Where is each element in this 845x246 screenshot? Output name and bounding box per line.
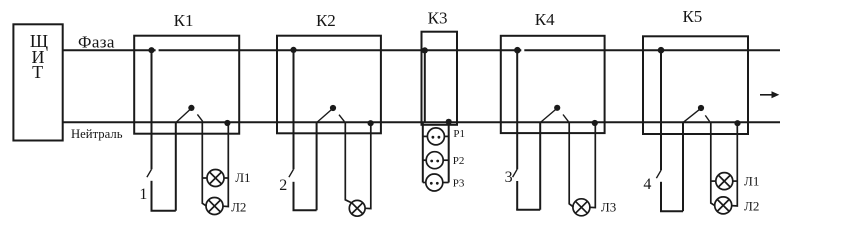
svg-text:Л3: Л3 (601, 199, 616, 214)
socket P3 (426, 174, 443, 191)
wire K5 lamp-feed blade (705, 115, 709, 121)
svg-text:Нейтраль: Нейтраль (71, 127, 123, 141)
wire K3 socket P1 right stub (444, 135, 448, 137)
wire K4 return diagonal (540, 109, 557, 123)
svg-text:К1: К1 (174, 11, 194, 30)
node K3 neutral tap (446, 119, 452, 125)
wire K2 return diagonal (317, 109, 333, 123)
node K5 switch common (698, 105, 704, 111)
wire gap after K4 phase tap (521, 48, 524, 52)
wire K3 socket P2 right stub (443, 159, 449, 161)
wire K1 phase drop to switch 1 (151, 50, 153, 169)
node K2 neutral tap (368, 120, 374, 126)
wire K4 neutral drop to lamp (590, 122, 595, 207)
lamp Л2 (K1) (206, 198, 223, 215)
wire switch 3 lower segment (516, 181, 518, 210)
wire K2 neutral drop to lamp (365, 122, 371, 208)
switch 3 blade (513, 169, 518, 177)
wire switch 2 lower segment (293, 182, 295, 211)
switch 1 blade (147, 169, 152, 177)
wire K3 socket P3 right stub (443, 182, 449, 184)
switch 4 blade (656, 170, 661, 178)
wire K5 lamp feed drop (711, 122, 715, 205)
svg-text:4: 4 (643, 176, 651, 193)
svg-text:К2: К2 (316, 11, 336, 30)
wire K3 neutral drop to sockets (448, 122, 450, 182)
wire K1 lamp feed drop (202, 122, 206, 206)
wire switch 1 bottom horizontal (151, 210, 176, 212)
wire switch 2 bottom horizontal (293, 209, 317, 211)
wire K3 socket P2 left stub (423, 159, 426, 161)
node K5 phase tap (658, 47, 665, 54)
socket P2 (426, 152, 443, 169)
lamp Л2 (K5) (715, 197, 732, 214)
svg-text:К5: К5 (682, 7, 702, 26)
svg-text:1: 1 (139, 186, 147, 203)
svg-text:К4: К4 (535, 10, 555, 29)
node K1 phase tap (148, 47, 154, 53)
socket P1 (427, 128, 444, 145)
wire K1 neutral drop to lamps (223, 122, 228, 206)
wire switch 4 lower segment (660, 182, 662, 211)
lamp Л1 (K1) (207, 170, 224, 187)
wire switch 3 return riser (539, 122, 541, 209)
svg-text:Л1: Л1 (744, 174, 759, 189)
junction box K3 (422, 32, 458, 125)
wire K4 lamp-feed blade (563, 115, 568, 122)
wire switch 4 bottom horizontal (660, 210, 683, 212)
node K2 phase tap (290, 47, 296, 53)
wire gap after K1 phase tap (156, 48, 159, 52)
node K4 neutral tap (592, 120, 598, 126)
svg-text:2: 2 (279, 177, 287, 194)
wire K3 socket P3 left stub (423, 182, 426, 184)
svg-text:Л1: Л1 (235, 170, 250, 185)
wire switch 3 bottom horizontal (516, 209, 540, 211)
wire switch 1 return riser (175, 122, 177, 211)
svg-text:3: 3 (505, 169, 513, 186)
node K4 switch common (554, 105, 560, 111)
wire K1 lamp L1 left stub (202, 177, 207, 179)
wire phase bus (63, 49, 780, 51)
wire K1 lamp L1 right stub (224, 177, 228, 179)
svg-text:Р1: Р1 (453, 128, 465, 140)
lamp (K2) (349, 200, 365, 216)
node K2 switch common (330, 105, 336, 111)
wire switch 2 return riser (316, 122, 318, 210)
svg-text:Р2: Р2 (453, 155, 465, 167)
label ЩИТ (30, 31, 48, 82)
junction box K2 (277, 36, 381, 134)
wire K5 lamp L1 left stub (711, 180, 716, 182)
wire K5 neutral drop to lamps (732, 122, 737, 206)
node K1 neutral tap (224, 120, 230, 126)
panel ЩИТ box (13, 24, 62, 140)
svg-text:Т: Т (32, 62, 43, 82)
junction box K4 (501, 36, 605, 133)
svg-text:Р3: Р3 (453, 177, 465, 189)
junction box K5 (643, 36, 748, 134)
wire neutral bus (63, 121, 780, 123)
wire K4 phase drop to switch 3 (516, 50, 518, 169)
wire K1 return diagonal (176, 109, 191, 123)
wire K2 phase drop to switch 2 (293, 50, 295, 169)
wire K5 return diagonal (683, 109, 701, 123)
svg-text:К3: К3 (428, 9, 448, 28)
wire switch 1 lower segment (151, 181, 153, 211)
node K1 switch common (188, 105, 194, 111)
wire K5 phase drop to switch 4 (660, 50, 662, 170)
wire K4 lamp feed drop (569, 122, 573, 207)
wire K3 socket feed riser (422, 122, 424, 183)
wire K2 lamp feed drop (345, 122, 351, 203)
wire K2 lamp-feed blade (339, 115, 344, 122)
lamp Л1 (K5) (716, 173, 733, 190)
node K4 phase tap (514, 47, 521, 54)
arrow head (772, 91, 780, 98)
svg-text:Л2: Л2 (744, 198, 759, 213)
wire K3 socket P1 left stub (423, 135, 428, 137)
wire K5 lamp L1 right stub (733, 180, 738, 182)
switch 2 blade (289, 169, 294, 177)
arrow line continuation (760, 94, 773, 96)
svg-text:Фаза: Фаза (78, 32, 115, 51)
node K3 phase tap (422, 47, 428, 53)
wire switch 4 return riser (682, 122, 684, 211)
wire K1 lamp-feed blade (197, 114, 202, 121)
node K5 neutral tap (734, 120, 740, 126)
svg-text:Л2: Л2 (231, 200, 246, 215)
junction box K1 (134, 36, 239, 134)
wire K3 phase drop to sockets (424, 50, 426, 123)
lamp Л3 (K4) (573, 199, 590, 216)
